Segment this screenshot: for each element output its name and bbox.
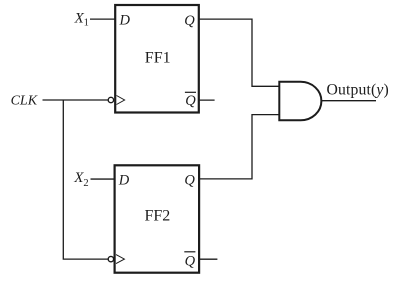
wire AND output to Output(y) xyxy=(321,100,376,102)
FF2 pin Qbar label xyxy=(184,252,195,270)
svg-text:Q: Q xyxy=(184,172,195,188)
FF1 clock bubble xyxy=(108,97,113,102)
wire CLK branch to FF2 clock xyxy=(63,100,108,259)
svg-text:CLK: CLK xyxy=(11,93,38,108)
svg-text:Q: Q xyxy=(185,253,196,269)
wire CLK to FF1 clock xyxy=(43,99,109,101)
wire FF1.Q to AND input A xyxy=(199,19,279,86)
svg-text:Output(y): Output(y) xyxy=(327,82,389,99)
svg-text:1: 1 xyxy=(84,18,89,29)
flip-flop FF1 box xyxy=(115,5,199,113)
svg-text:Q: Q xyxy=(184,13,195,29)
AND gate U1 xyxy=(279,82,321,121)
FF1 pin Qbar label xyxy=(185,92,196,109)
wire X1 to FF1.D xyxy=(90,18,115,20)
flip-flop FF2 box xyxy=(115,165,200,272)
FF2 clock edge triangle xyxy=(116,255,124,264)
input label X1 xyxy=(74,11,89,29)
input label X2 xyxy=(73,170,88,189)
wire FF1.Qbar stub xyxy=(199,99,215,101)
svg-text:Q: Q xyxy=(185,93,196,109)
wire X2 to FF2.D xyxy=(91,178,115,180)
wire FF2.Q to AND input B xyxy=(199,115,279,179)
svg-text:FF2: FF2 xyxy=(145,208,171,225)
wire FF2.Qbar stub xyxy=(199,258,217,260)
svg-text:D: D xyxy=(118,172,130,188)
svg-text:FF1: FF1 xyxy=(145,50,171,67)
svg-text:D: D xyxy=(119,13,131,29)
FF1 clock edge triangle xyxy=(117,96,125,105)
FF2 clock bubble xyxy=(108,256,113,261)
svg-text:2: 2 xyxy=(83,178,88,189)
